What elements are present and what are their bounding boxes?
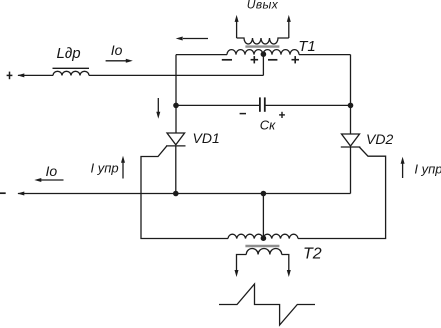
capacitor Ск plates xyxy=(259,97,261,111)
svg-text:Io: Io xyxy=(111,42,123,58)
arrow: I упр left pointing up xyxy=(122,162,124,179)
wire: T1 primary left end to left rail corner xyxy=(176,54,227,56)
arrowhead: down into VD1 xyxy=(156,112,160,119)
svg-text:Ск: Ск xyxy=(260,118,276,133)
arrow: current Io into + terminal (left) xyxy=(106,60,126,62)
transformer T2 primary winding xyxy=(228,234,298,238)
svg-text:VD2: VD2 xyxy=(366,131,393,147)
arrowhead: T2 secondary right down xyxy=(287,270,291,277)
transformer T1 primary winding xyxy=(227,50,299,55)
wire: commutation cap left segment xyxy=(176,104,260,106)
svg-text:I упр: I упр xyxy=(414,162,441,177)
wire: T1 primary right end to right rail corner xyxy=(299,54,351,56)
arrowhead: T2 secondary left down xyxy=(235,270,239,277)
waveform: output sawtooth symbol xyxy=(219,284,315,325)
wire: VD1 cathode down to bottom bus xyxy=(175,146,177,194)
arrowhead: I упр right up xyxy=(401,157,405,164)
arrow: I упр right pointing up xyxy=(402,163,404,178)
transformer T1 secondary winding xyxy=(237,38,289,44)
arrowhead: I упр left up xyxy=(121,156,125,163)
label minus under T1 left half xyxy=(222,59,232,61)
wire: T2 center tap riser xyxy=(262,194,264,239)
wire: right rail down to VD2 anode xyxy=(350,55,352,134)
wire: VD1 gate lead xyxy=(141,146,228,239)
svg-text:T1: T1 xyxy=(298,38,316,55)
label plus under T1 left half xyxy=(251,56,259,63)
wire: T2 secondary right lead xyxy=(282,255,289,272)
arrow: anode current down into VD1 xyxy=(157,98,159,113)
label plus at capacitor xyxy=(279,112,285,118)
transformer T2 core xyxy=(245,245,279,247)
junction node: right rail / cap bus xyxy=(348,103,354,109)
inductor Lдр xyxy=(53,71,89,75)
arrowhead: Io bottom left xyxy=(34,178,41,182)
label minus under T1 right half xyxy=(268,59,277,61)
label minus at output terminal xyxy=(0,192,6,194)
svg-text:VD1: VD1 xyxy=(193,130,220,146)
arrow: Io bottom pointing left xyxy=(41,179,64,181)
junction node: VD1 cathode on bottom bus xyxy=(173,191,179,197)
wire: T1 center tap riser xyxy=(262,55,264,76)
junction node: T2 center tap xyxy=(261,235,267,241)
label + (input terminal) xyxy=(7,72,13,80)
thyristor VD1 xyxy=(167,133,185,145)
svg-text:Uвых: Uвых xyxy=(247,0,279,11)
svg-text:Io: Io xyxy=(46,163,58,179)
transformer T1 core xyxy=(245,45,279,47)
transformer T2 secondary winding xyxy=(246,249,281,255)
wire: T1 secondary left lead up xyxy=(236,21,238,39)
label plus under T1 right half xyxy=(292,56,300,63)
arrow: free arrow under T1 pointing left xyxy=(183,38,208,40)
junction node: T2 riser on bottom bus xyxy=(261,191,267,197)
wire: T2 secondary left lead xyxy=(237,255,247,272)
wire: VD2 cathode down to bottom bus xyxy=(350,147,352,194)
arrowhead: Io top right xyxy=(126,59,133,63)
junction node: T1 center tap xyxy=(261,51,267,57)
label minus at capacitor xyxy=(240,113,246,115)
wire: Ldr to T1 center tap riser xyxy=(89,74,263,76)
wire: VD2 gate lead xyxy=(298,147,386,239)
svg-text:L∂р: L∂р xyxy=(57,45,81,62)
wire: T1 secondary right lead up xyxy=(288,21,290,39)
arrowhead: free arrow under T1 xyxy=(176,37,183,41)
junction node: left rail / cap bus xyxy=(173,103,179,109)
arrowhead: bottom bus output left xyxy=(17,192,24,196)
wire: left rail down to VD1 anode xyxy=(175,55,177,133)
wire: bottom output bus xyxy=(18,193,351,195)
wire: commutation cap right segment xyxy=(265,104,351,106)
arrowhead: T1 secondary right up xyxy=(287,15,291,22)
thyristor VD2 xyxy=(342,134,360,146)
inductor Lдр core bar xyxy=(53,67,90,69)
svg-text:I упр: I упр xyxy=(91,161,119,176)
arrowhead: + terminal left xyxy=(17,73,24,77)
wire: + input feed from arrow to Ldr xyxy=(18,74,53,76)
svg-text:T2: T2 xyxy=(303,245,322,262)
arrowhead: T1 secondary left up xyxy=(235,15,239,22)
